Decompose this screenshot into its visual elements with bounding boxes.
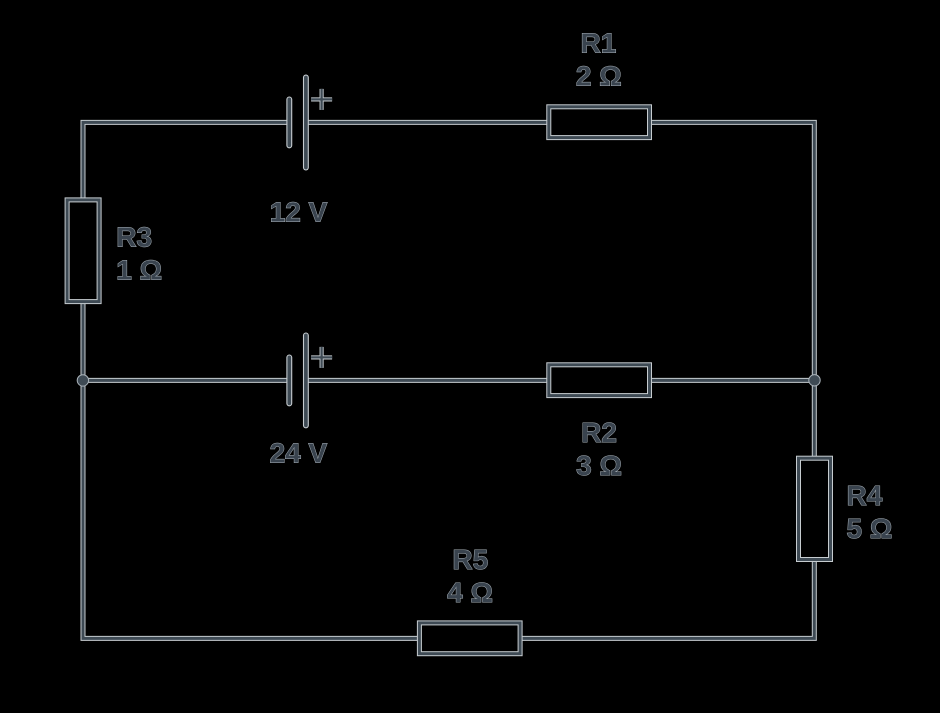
svg-text:3 Ω: 3 Ω [576,450,622,481]
svg-text:R3: R3 [116,222,152,253]
svg-text:R4: R4 [847,480,883,511]
svg-text:1 Ω: 1 Ω [116,255,162,286]
svg-text:R5: R5 [452,544,488,575]
svg-text:4 Ω: 4 Ω [447,577,493,608]
svg-text:R1: R1 [581,28,617,59]
svg-text:R2: R2 [581,417,617,448]
svg-text:12 V: 12 V [270,197,328,228]
svg-text:5 Ω: 5 Ω [847,513,893,544]
svg-text:24 V: 24 V [270,438,328,469]
svg-text:2 Ω: 2 Ω [576,61,622,92]
